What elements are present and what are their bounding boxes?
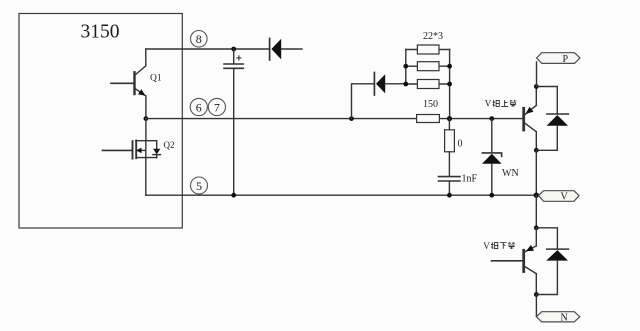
wire branch pin6/7 rail up to diode D2 (349, 116, 354, 121)
svg-text:1nF: 1nF (462, 174, 478, 185)
node T1 emitter (534, 148, 539, 153)
diode D3 freewheel (upper) (536, 87, 568, 151)
diode D4 freewheel (lower) (536, 228, 568, 295)
node P terminal (537, 53, 581, 65)
transistor T1 V-phase upper IGBT (524, 87, 537, 151)
wire P connector lead (536, 62, 538, 87)
svg-text:3150: 3150 (81, 22, 120, 43)
op-amp U1 3150 driver IC box (19, 14, 182, 229)
node T2 collector (534, 225, 539, 230)
node pin 5 circle (191, 177, 208, 194)
svg-text:V: V (483, 241, 490, 251)
label V相下管 (V-phase lower transistor) (483, 241, 515, 251)
svg-text:P: P (563, 54, 569, 65)
zener diode WN (gate clamp) (482, 116, 519, 197)
node pin 8 circle (191, 31, 208, 48)
resistor R2 150 (gate resistor) (417, 99, 440, 123)
svg-text:6: 6 (196, 100, 202, 114)
svg-text:0: 0 (458, 139, 463, 150)
wire pin8 rail (pin 8 to diode D1) (146, 48, 269, 50)
node T2 emitter (534, 292, 539, 297)
transistor T2 V-phase lower IGBT (492, 228, 537, 295)
svg-text:150: 150 (423, 99, 438, 110)
svg-text:Q1: Q1 (150, 74, 162, 84)
wire pin8 rail after D1 (281, 48, 302, 50)
wire V node down to T2 collector (535, 195, 537, 228)
svg-text:7: 7 (214, 100, 220, 114)
wire pin6/7 rail (146, 118, 417, 120)
transistor Q2 (MOSFET with body diode) (103, 140, 175, 195)
wire T1 emitter to V node (535, 150, 537, 195)
diode D2 (turn-off path) (374, 73, 405, 96)
svg-text:N: N (561, 313, 568, 324)
capacitor C1 electrolytic (pin8 to pin5) (224, 47, 243, 198)
wire pin5 rail (146, 194, 537, 196)
resistor R3 0 (vertical) (445, 119, 463, 177)
node pin 7 circle (208, 98, 225, 115)
node V junction (534, 193, 539, 198)
transistor Q1 (111, 66, 162, 118)
wire N connector lead (535, 295, 537, 317)
svg-text:8: 8 (196, 32, 202, 46)
label V相上管 (V-phase upper transistor) (485, 99, 517, 109)
node junction 150/22*3/0-resistor (447, 116, 452, 121)
node pin 6 circle (190, 98, 207, 115)
node T1 collector (534, 84, 539, 89)
svg-text:V: V (485, 99, 492, 109)
svg-text:22*3: 22*3 (423, 31, 443, 42)
diode D1 on pin8 rail (270, 38, 282, 60)
resistor network R1 22*3 (403, 31, 452, 119)
wire Q1 collector vertical to pin8 rail (145, 49, 147, 66)
wire Q1 emitter to Q2 drain (145, 119, 147, 141)
svg-text:5: 5 (196, 179, 202, 193)
node pin6/7 junction (Q1 emitter to rail) (144, 116, 149, 121)
capacitor C2 1nF (439, 174, 478, 198)
svg-text:Q2: Q2 (164, 140, 175, 150)
node N terminal (536, 312, 579, 324)
node V terminal (539, 191, 579, 203)
svg-text:V: V (561, 192, 569, 203)
svg-text:WN: WN (502, 168, 519, 179)
